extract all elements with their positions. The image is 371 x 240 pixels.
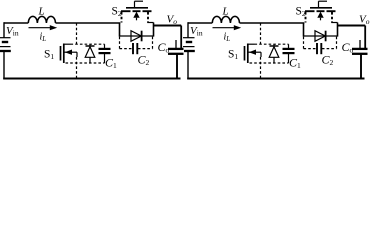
wire: left edge from top rail down to battery (circuit 1) — [3, 22, 5, 37]
capacitor C2 dashed branch (circuit 2) — [303, 37, 305, 49]
body diode of S1 (circuit 2) — [270, 45, 279, 47]
capacitor C_o top lead (circuit 2) — [359, 40, 361, 48]
wire: left edge from top rail down to battery (circuit 2) — [187, 22, 189, 37]
svg-text:L: L — [222, 6, 229, 18]
diode of S2 (circuit 1) — [120, 35, 154, 37]
wire dashed: S2 drain lead (circuit 1) — [121, 12, 123, 23]
circuit schematic: two-phase boost converter, two identical sub-circuits — [0, 0, 371, 84]
wire dashed: S1 drain net horizontal (circuit 2) — [255, 43, 289, 45]
diode of S2 (circuit 2) — [304, 35, 338, 37]
battery V_in (circuit 1) — [0, 37, 11, 39]
wire: top rail from Vin to node A (circuit 2) — [188, 22, 212, 24]
transistor S2 gate lead (circuit 1) — [135, 0, 144, 2]
wire: top rail from Vin to node A (circuit 1) — [4, 22, 28, 24]
capacitor C1 (circuit 1) — [104, 44, 106, 48]
battery V_in (circuit 2) — [183, 37, 195, 39]
inductor L (circuit 2) — [212, 16, 239, 23]
wire dashed: S1 drain net horizontal (circuit 1) — [71, 43, 105, 45]
transistor S2 body arrow (circuit 2) — [317, 12, 323, 18]
wire: output rail (circuit 1) — [154, 25, 182, 27]
wire: right edge down to output capacitor (circuit 1) — [180, 26, 182, 49]
capacitor C2 dashed branch (circuit 1) — [119, 37, 121, 49]
wire dashed: S1 source net down to bottom rail (circuit 1) — [76, 57, 78, 79]
svg-text:L: L — [38, 6, 45, 18]
transistor S2 channel bar (circuit 2) — [305, 10, 315, 12]
transistor S1 drain lead (circuit 2) — [248, 43, 255, 45]
wire: output rail (circuit 2) — [338, 25, 366, 27]
wire dashed: S1 source net down to bottom rail (circuit 2) — [260, 57, 262, 79]
wire: S2 source to output node (circuit 1) — [147, 22, 153, 24]
capacitor C_o (circuit 1) — [168, 48, 184, 50]
wire dashed: S1 source net horizontal (circuit 1) — [66, 62, 105, 64]
wire dashed: S2 source lead (circuit 2) — [331, 12, 333, 23]
transistor S2 channel bar (circuit 1) — [121, 10, 131, 12]
wire: S2 source to output node (circuit 2) — [331, 22, 337, 24]
wire: bottom rail (circuit 1) — [3, 78, 180, 80]
wire: battery negative lead to bottom rail (circuit 1) — [3, 51, 5, 79]
transistor S2 body arrow (circuit 1) — [133, 12, 139, 18]
transistor S1 channel bar (circuit 2) — [247, 44, 249, 64]
capacitor C1 (circuit 2) — [288, 44, 290, 48]
capacitor C_o (circuit 2) — [352, 48, 368, 50]
capacitor C_o top lead (circuit 1) — [175, 40, 177, 48]
wire dashed: node A down to S1 drain net (circuit 1) — [76, 23, 78, 44]
capacitor C2 plates (circuit 1) — [132, 43, 134, 54]
transistor S1 drain lead (circuit 1) — [64, 43, 71, 45]
body diode of S1 (circuit 1) — [86, 45, 95, 47]
transistor S2 gate bar (circuit 1) — [126, 7, 148, 9]
wire: node A vertical down to diode branch (circuit 2) — [303, 23, 305, 37]
wire dashed: S2 source lead (circuit 1) — [147, 12, 149, 23]
transistor S1 channel bar (circuit 1) — [63, 44, 65, 64]
transistor S1 gate bar (circuit 1) — [60, 46, 62, 61]
current arrow i_L (circuit 1) — [29, 27, 52, 29]
inductor L (circuit 1) — [28, 16, 55, 23]
transistor S1 source lead with arrow (circuit 2) — [249, 51, 262, 53]
wire: right edge down to output capacitor (circuit 2) — [364, 26, 366, 49]
capacitor C2 plates (circuit 2) — [316, 43, 318, 54]
transistor S1 source lead with arrow (circuit 1) — [65, 51, 78, 53]
transistor S2 gate bar (circuit 2) — [310, 7, 332, 9]
wire: bottom rail (circuit 2) — [187, 78, 364, 80]
wire: node A vertical down to diode branch (circuit 1) — [119, 23, 121, 37]
wire dashed: node A down to S1 drain net (circuit 2) — [260, 23, 262, 44]
wire dashed: S2 drain lead (circuit 2) — [305, 12, 307, 23]
transistor S1 gate bar (circuit 2) — [244, 46, 246, 61]
wire dashed: S1 source net horizontal (circuit 2) — [250, 62, 289, 64]
wire: battery negative lead to bottom rail (circuit 2) — [187, 51, 189, 79]
transistor S2 gate lead (circuit 2) — [319, 0, 328, 2]
current arrow i_L (circuit 2) — [213, 27, 236, 29]
